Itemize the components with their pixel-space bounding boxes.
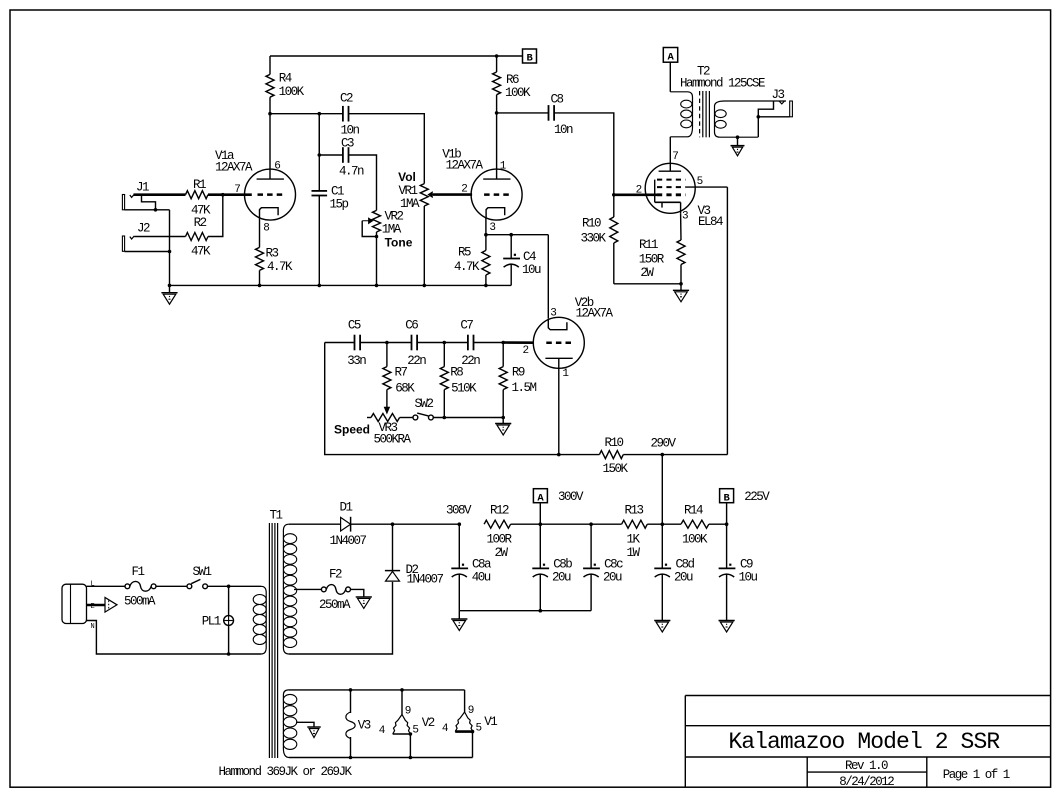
wire R13 to R14 (647, 523, 681, 525)
svg-text:12AX7A: 12AX7A (575, 307, 613, 321)
wire R4 node to C2 (270, 113, 343, 115)
pin 3 V1b (489, 222, 496, 234)
wire C1 to ground bus (318, 196, 322, 288)
transformer T2 core (700, 91, 710, 137)
node V1b cathode junction (484, 233, 488, 237)
svg-text:SW1: SW1 (192, 565, 211, 579)
svg-text:C3: C3 (341, 137, 354, 151)
svg-text:22n: 22n (407, 354, 426, 368)
wire V3 screen (686, 186, 728, 188)
node B bottom (720, 489, 771, 525)
wire C1 branch (318, 114, 320, 191)
svg-text:100K: 100K (682, 532, 708, 546)
svg-text:1N4007: 1N4007 (329, 534, 366, 548)
capacitor C8d (654, 524, 694, 620)
wire R10 to 290V node (623, 454, 662, 456)
jack J1 (122, 181, 149, 210)
wire R2 up to grid node (208, 195, 223, 237)
jack J3 switch contact (758, 101, 773, 117)
capacitor C8 (549, 93, 573, 138)
node R1-R2 junction (221, 193, 225, 197)
heater V1 (442, 690, 497, 735)
title text (728, 729, 1000, 755)
svg-text:C6: C6 (405, 318, 418, 332)
wire C8 to V3 grid (554, 113, 614, 195)
page label (943, 768, 1010, 782)
svg-text:R11: R11 (639, 238, 658, 252)
wire V1b plate to C8 (497, 112, 549, 114)
svg-text:J1: J1 (136, 181, 149, 195)
svg-text:150K: 150K (602, 462, 628, 476)
lamp PL1 (202, 586, 234, 628)
wire 290V drop to rail (661, 455, 663, 525)
svg-text:R5: R5 (458, 246, 471, 260)
capacitor C7 (460, 318, 480, 368)
wire V1b cathode lead (485, 218, 487, 235)
node 308V (446, 504, 472, 526)
node heater V3 top (349, 688, 353, 692)
label T1 type (218, 765, 352, 779)
switch SW2 (400, 397, 434, 420)
node V1a plate junction (268, 112, 272, 116)
svg-text:2: 2 (522, 345, 529, 357)
wire VR1 to ground bus (423, 206, 427, 287)
svg-text:R9: R9 (512, 366, 525, 380)
svg-text:A: A (667, 52, 674, 64)
svg-text:68K: 68K (395, 381, 415, 395)
potentiometer VR3 (367, 414, 411, 447)
wire F2 to ground (351, 589, 364, 597)
node R6 top junction (495, 54, 499, 58)
wire heater top bus (289, 689, 465, 691)
svg-text:C2: C2 (340, 92, 353, 106)
wire live to F1 (87, 585, 126, 587)
node C8c junction (589, 522, 593, 526)
svg-text:VR2: VR2 (384, 209, 403, 223)
resistor R8 (440, 343, 477, 418)
node C1 top junction (318, 112, 322, 116)
svg-text:V3: V3 (358, 718, 371, 732)
node R8 junction (443, 341, 447, 345)
svg-text:7: 7 (234, 184, 241, 196)
fuse F1 (124, 565, 156, 608)
capacitor C4 (503, 235, 541, 286)
wire R10 bottom to R11 bottom (614, 283, 681, 285)
capacitor C9 (719, 524, 758, 620)
wire bottom to T1 primary (229, 653, 261, 655)
svg-text:Rev 1.0: Rev 1.0 (845, 759, 888, 773)
wire C3 left (319, 154, 343, 156)
svg-text:B: B (724, 492, 731, 504)
svg-text:SW2: SW2 (414, 397, 433, 411)
svg-text:2: 2 (461, 184, 468, 196)
capacitor C6 (405, 318, 426, 368)
resistor R11 (639, 238, 685, 284)
svg-text:290V: 290V (650, 436, 676, 450)
svg-text:20u: 20u (552, 571, 571, 585)
wire R14 to C9 (709, 523, 727, 525)
node A bottom junction (539, 522, 543, 526)
resistor R14 (681, 503, 709, 546)
transformer T2 primary (670, 92, 692, 137)
wire C2 to VR1 top (349, 114, 425, 184)
svg-text:2W: 2W (640, 266, 654, 280)
svg-text:12AX7A: 12AX7A (215, 161, 253, 175)
wire plate node to R10 (559, 454, 600, 456)
wire feedback left (325, 343, 559, 455)
pin 7 V3 (672, 151, 679, 163)
svg-text:Vol: Vol (398, 170, 416, 184)
wire to V2b cathode (547, 235, 549, 319)
svg-text:330K: 330K (580, 232, 606, 246)
potentiometer VR2 (362, 209, 403, 236)
svg-text:500mA: 500mA (124, 594, 156, 608)
wire C3 to VR2 top (349, 155, 377, 210)
svg-text:R8: R8 (450, 366, 463, 380)
wire V2 heater drop (409, 732, 413, 759)
pin 3 V2b (550, 307, 557, 319)
transformer T1 core (269, 523, 277, 758)
ground T2 secondary (731, 137, 745, 156)
wire 290V to screen line (662, 454, 727, 456)
wire J2 sleeve (125, 251, 170, 253)
svg-text:8: 8 (263, 223, 270, 235)
svg-text:C8: C8 (550, 93, 563, 107)
wire heater bottom bus (289, 757, 473, 759)
pin 5 V3 (697, 176, 704, 188)
pin 1 V2b (562, 368, 569, 380)
label Tone (385, 236, 413, 250)
svg-text:R3: R3 (265, 247, 278, 261)
svg-text:V2: V2 (422, 716, 435, 730)
node heater V3 bottom (349, 756, 353, 760)
svg-text:B: B (526, 53, 533, 65)
pin 2 V3 (636, 185, 643, 197)
svg-text:R10: R10 (582, 217, 601, 231)
wire HV top to D1 (289, 523, 341, 525)
node SW2-R8 junction (443, 416, 447, 420)
triode V1b (471, 169, 522, 221)
svg-text:22n: 22n (461, 354, 480, 368)
wire C5 to C6 (360, 342, 411, 344)
resistor R9 (499, 343, 536, 418)
svg-text:4.7K: 4.7K (267, 260, 293, 274)
svg-text:3: 3 (550, 307, 557, 319)
wire V3 grid thick (614, 194, 657, 197)
node A bottom (533, 489, 584, 525)
node C4 top junction (509, 233, 513, 237)
label Speed (334, 423, 370, 437)
transformer T2 label (680, 64, 765, 90)
node R11 ground junction (679, 282, 683, 286)
svg-text:V1: V1 (484, 715, 497, 729)
svg-text:A: A (537, 492, 544, 504)
svg-text:4.7n: 4.7n (339, 164, 364, 178)
node A top (663, 48, 677, 64)
wire J3 sleeve (757, 115, 790, 119)
wire HV tap to F2 (294, 588, 321, 590)
svg-text:9: 9 (468, 705, 475, 717)
node 290V (650, 436, 676, 456)
pin 3 V3 (682, 211, 689, 223)
transformer T1 label (269, 508, 282, 522)
resistor R10 grid (580, 195, 617, 284)
svg-text:100K: 100K (279, 85, 305, 99)
svg-text:R7: R7 (394, 366, 407, 380)
svg-text:Tone: Tone (385, 236, 413, 250)
transformer T1 heater winding (283, 690, 296, 758)
svg-text:225V: 225V (744, 490, 770, 504)
potentiometer VR1 (398, 170, 436, 211)
svg-text:308V: 308V (446, 504, 472, 518)
wire top rail to B (270, 55, 523, 57)
svg-text:EL84: EL84 (698, 215, 723, 229)
heater V3 (346, 690, 371, 758)
wire C3 branch (318, 114, 320, 155)
wire D1 to rail (351, 523, 460, 525)
svg-text:10u: 10u (738, 571, 757, 585)
pin 2 V1b (461, 184, 468, 196)
svg-text:T1: T1 (269, 508, 282, 522)
node B top (523, 49, 537, 65)
svg-text:Speed: Speed (334, 423, 370, 437)
node R7 junction (385, 341, 389, 345)
wire input ground drop (169, 210, 171, 286)
svg-text:C8b: C8b (553, 557, 572, 571)
svg-text:500KRA: 500KRA (373, 432, 411, 446)
resistor R7 (383, 343, 415, 396)
node heater V2 top (400, 688, 404, 692)
wire R12 to R13 (511, 523, 622, 525)
svg-text:100R: 100R (486, 532, 512, 546)
wire SW1 to T1 (208, 585, 262, 587)
svg-text:10u: 10u (522, 263, 541, 277)
capacitor C3 (339, 137, 364, 179)
wire VR2 to ground bus (375, 232, 379, 287)
transformer T2 secondary (715, 101, 787, 137)
svg-text:D1: D1 (339, 500, 352, 514)
svg-text:C8d: C8d (675, 557, 694, 571)
wire V2b plate lead (558, 368, 560, 454)
node J2 sleeve junction (168, 250, 172, 254)
pin 7 V1a (234, 184, 241, 196)
wire cathode node to C4 and V2b (486, 234, 548, 236)
pin 1 V1b (500, 161, 507, 173)
label V1b (442, 148, 483, 173)
wire cap ground bus (459, 610, 591, 612)
resistor R3 (256, 247, 293, 286)
wire A to T2 primary (669, 62, 671, 92)
svg-text:R12: R12 (490, 503, 509, 517)
ground input bus (161, 284, 177, 305)
svg-text:20u: 20u (674, 571, 693, 585)
wire VR1 wiper to V1b grid thick (433, 193, 472, 196)
wire J2 tip (134, 236, 185, 238)
svg-text:12AX7A: 12AX7A (445, 159, 483, 173)
wire neutral (87, 621, 229, 655)
wire screen drop to 290V line (726, 187, 728, 455)
capacitor C2 (340, 92, 360, 138)
resistor R1 (186, 178, 211, 218)
svg-text:5: 5 (475, 723, 482, 735)
node C9 junction (725, 522, 729, 526)
svg-text:3: 3 (489, 222, 496, 234)
wire R1 to V1a grid thick (208, 193, 252, 196)
node C3 junction (318, 153, 322, 157)
svg-text:1.5M: 1.5M (511, 381, 536, 395)
wire ground bus (170, 284, 512, 286)
svg-text:R10: R10 (604, 436, 623, 450)
node R9 junction (501, 341, 505, 345)
svg-text:7: 7 (672, 151, 679, 163)
triode V1a (245, 169, 296, 221)
svg-text:F2: F2 (329, 567, 342, 581)
resistor R6 (493, 56, 531, 113)
svg-text:33n: 33n (347, 354, 366, 368)
wire V1a cathode lead (259, 218, 261, 248)
svg-text:9: 9 (405, 706, 412, 718)
svg-text:C8a: C8a (472, 557, 492, 571)
wire SW2 to R8 R9 (433, 417, 503, 419)
ground C8a (451, 611, 467, 631)
capacitor C5 (347, 318, 366, 368)
svg-text:C8c: C8c (604, 557, 623, 571)
pin 8 V1a (263, 223, 270, 235)
svg-text:1: 1 (500, 161, 507, 173)
node R9 ground junction (501, 416, 505, 420)
diode D1 (329, 500, 366, 548)
rev label (845, 759, 888, 773)
svg-text:Kalamazoo Model 2 SSR: Kalamazoo Model 2 SSR (728, 729, 1000, 755)
node R3 ground junction (258, 284, 262, 288)
svg-text:1: 1 (562, 368, 569, 380)
resistor R4 (266, 56, 305, 114)
transformer T1 HV secondary (283, 524, 296, 654)
wire C6 to C7 (417, 342, 468, 344)
wire C7 to V2b grid (474, 342, 504, 344)
mains earth arrow (87, 598, 118, 613)
svg-text:C1: C1 (331, 184, 344, 198)
node PL1 top junction (227, 585, 231, 589)
ground oscillator (495, 418, 511, 436)
node C8d junction (661, 522, 665, 526)
svg-text:40u: 40u (472, 571, 491, 585)
fuse F2 (319, 567, 351, 612)
svg-text:10n: 10n (554, 123, 573, 137)
triode V2b (533, 317, 584, 369)
node V3 grid junction (612, 193, 616, 197)
wire J1 sleeve (125, 209, 170, 211)
svg-text:150R: 150R (639, 253, 665, 267)
svg-text:4: 4 (442, 723, 449, 735)
svg-text:1N4007: 1N4007 (406, 573, 443, 587)
wire V1b plate lead (496, 113, 498, 169)
svg-text:10n: 10n (340, 124, 359, 138)
node R5 ground junction (484, 284, 488, 288)
capacitor C1 (312, 184, 349, 211)
svg-text:4: 4 (379, 725, 386, 737)
svg-text:J3: J3 (771, 88, 784, 102)
ground heater tap (307, 727, 321, 738)
heater V2 (379, 690, 435, 737)
wire F1 to SW1 (156, 585, 187, 587)
svg-text:3: 3 (682, 211, 689, 223)
svg-text:Page 1 of 1: Page 1 of 1 (943, 768, 1010, 782)
jack J2 (122, 222, 150, 252)
svg-text:300V: 300V (558, 490, 584, 504)
wire heater center tap (296, 722, 314, 727)
svg-text:F1: F1 (131, 565, 144, 579)
svg-text:20u: 20u (603, 571, 622, 585)
capacitor C8b (532, 524, 572, 612)
switch SW1 (187, 565, 211, 589)
svg-text:1MA: 1MA (400, 197, 420, 211)
ground C9 (719, 621, 735, 633)
svg-text:L: L (91, 581, 95, 589)
node T2 secondary ground junction (736, 135, 740, 139)
label V3 (697, 204, 723, 229)
date label (839, 775, 894, 789)
svg-text:R13: R13 (624, 503, 643, 517)
svg-text:8/24/2012: 8/24/2012 (839, 775, 894, 789)
svg-text:100K: 100K (505, 86, 531, 100)
node V1b plate junction (495, 111, 499, 115)
resistor R12 (484, 503, 512, 560)
svg-text:1MA: 1MA (382, 223, 402, 237)
diode D2 (385, 524, 444, 586)
svg-text:6: 6 (274, 161, 281, 173)
node D2 top junction (391, 522, 395, 526)
capacitor C8a (451, 524, 492, 611)
svg-text:R1: R1 (193, 178, 206, 192)
ground C8d (654, 621, 670, 633)
label V1a (215, 149, 253, 175)
svg-text:N: N (91, 623, 95, 631)
jack J3 (771, 88, 792, 117)
svg-text:C5: C5 (348, 318, 361, 332)
wire V3 cathode lead (680, 213, 682, 240)
pentode V3 (645, 163, 695, 213)
wire V1 heater drop (471, 730, 475, 758)
label V2b (575, 296, 614, 321)
wire V2b grid thick (503, 341, 533, 344)
transformer T1 primary (253, 586, 266, 654)
resistor R2 (186, 216, 211, 259)
svg-text:C4: C4 (523, 250, 536, 264)
title block frame (685, 696, 1050, 788)
svg-text:4.7K: 4.7K (454, 260, 480, 274)
pin 2 V2b (522, 345, 529, 357)
wire phase line (325, 342, 355, 344)
jack J1 switch contact (142, 195, 156, 209)
svg-text:5: 5 (412, 725, 419, 737)
wire T2 to V3 plate (669, 137, 671, 164)
pin 6 V1a (274, 161, 281, 173)
node J1 sleeve junction (154, 208, 158, 212)
wire J3 sleeve drop (757, 117, 759, 137)
svg-text:47K: 47K (191, 245, 211, 259)
svg-text:PL1: PL1 (202, 614, 221, 628)
svg-text:510K: 510K (451, 381, 477, 395)
wire HV bottom to D2 (289, 582, 393, 654)
ground F2 (356, 597, 372, 609)
wire R7 wiper arrow (384, 390, 389, 414)
ground R11 (673, 284, 689, 302)
svg-text:C9: C9 (740, 557, 753, 571)
resistor R5 (454, 235, 490, 286)
svg-text:R4: R4 (279, 72, 292, 86)
svg-text:2W: 2W (494, 546, 508, 560)
